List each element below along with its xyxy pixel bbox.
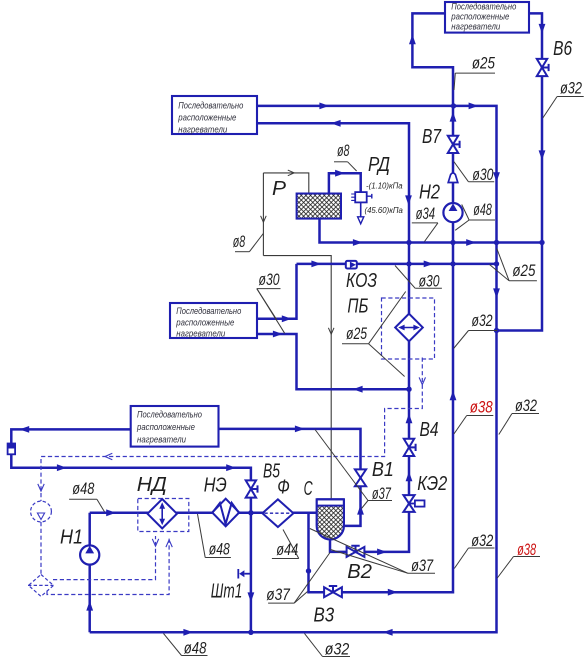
node trunk A x ø30 return <box>406 387 411 392</box>
shelf ø8 upper <box>334 161 348 163</box>
РД drain open triangle <box>358 217 364 224</box>
arrow right main ø34 line 2 <box>466 239 476 246</box>
leader ø48 bottom <box>164 634 182 656</box>
leader ø34 <box>425 223 438 242</box>
svg-text:Шт1: Шт1 <box>211 579 243 602</box>
svg-text:С: С <box>304 477 313 500</box>
svg-text:ø30: ø30 <box>419 272 440 290</box>
arrow right В5 run 2 <box>226 464 236 471</box>
node trunk A x КОЗ line <box>406 261 411 266</box>
shelf ø32 trunk C <box>512 413 539 415</box>
svg-text:ø8: ø8 <box>337 142 350 160</box>
shelf ø48 pump <box>69 498 97 500</box>
svg-text:расположенные: расположенные <box>136 422 195 432</box>
arrow up trunk A at КЭ2 <box>406 472 413 482</box>
svg-text:ø48: ø48 <box>72 480 94 498</box>
svg-text:Н2: Н2 <box>419 181 440 204</box>
svg-text:расположенные: расположенные <box>450 11 509 21</box>
filter Ф diamond <box>262 499 293 527</box>
wire: dashed standby return from ПБ box <box>41 358 422 502</box>
leader ø37 В3 a <box>294 592 307 604</box>
leader ø38 red upper <box>454 416 467 435</box>
wire: thin line, tank Р top pipe <box>263 173 308 194</box>
svg-text:нагреватели: нагреватели <box>176 329 225 339</box>
arrow right РД pipe <box>335 170 345 177</box>
wire: heater box A outlet down to В6 and to junction with right trunk <box>497 13 543 330</box>
wire: main horizontal line ø34 <box>320 219 543 243</box>
svg-text:-(1.10)кПа: -(1.10)кПа <box>366 182 403 191</box>
open arrow to standby pump <box>38 484 44 491</box>
svg-text:ø48: ø48 <box>473 201 492 219</box>
wire: heater box B lower pipe becoming main trunk A <box>257 123 409 313</box>
node trunk C x В6 line <box>494 328 499 333</box>
shelf ø32 mid <box>469 547 495 549</box>
node on В3 branch <box>306 568 311 573</box>
reducer cone above Н2 <box>448 173 458 183</box>
wire: pump Н1 riser <box>88 513 91 633</box>
svg-text:РД: РД <box>368 153 390 176</box>
separator С vessel <box>317 499 344 539</box>
arrow left box B lower <box>331 120 341 127</box>
shelf ø25 right <box>509 280 537 282</box>
wire: РД drain stub <box>360 202 362 216</box>
node box B upper / box A riser <box>451 103 456 108</box>
svg-text:НЭ: НЭ <box>204 474 227 497</box>
arrow down Шт1 drain <box>248 592 255 602</box>
svg-text:расположенные: расположенные <box>175 318 234 328</box>
shelf ø32 bottom <box>323 656 351 658</box>
svg-text:В3: В3 <box>314 604 335 627</box>
shelf ø30 КОЗ <box>415 287 442 289</box>
svg-text:ø48: ø48 <box>184 640 207 658</box>
shelf ø8 lower <box>235 251 249 253</box>
svg-text:нагреватели: нагреватели <box>178 124 227 134</box>
svg-text:В6: В6 <box>553 37 572 60</box>
leader ø48 pump <box>97 499 105 512</box>
valve В2 <box>347 546 365 557</box>
leader ø48 Н2b <box>455 220 469 230</box>
arrow on box D outlet <box>295 426 305 433</box>
leader ø30 КОЗ <box>395 266 415 289</box>
leader ø30 box C lower <box>257 289 285 334</box>
heater (hatched) of regulator Р <box>297 194 341 219</box>
svg-text:ø32: ø32 <box>560 80 582 98</box>
leader ø32 bottom <box>305 634 323 657</box>
svg-text:ø32: ø32 <box>471 532 493 550</box>
leader ø25 ПБ down <box>369 344 405 377</box>
arrow right КОЗ line 2 <box>424 261 434 268</box>
valve В1 <box>355 469 366 486</box>
arrow down trunk C mid <box>493 288 500 298</box>
node В5 x main line <box>248 510 253 515</box>
arrow bottom line right part <box>383 629 393 636</box>
shelf ø32 В6 <box>557 96 584 98</box>
arrow right box B upper <box>319 103 329 110</box>
leader ø25 ПБ up <box>369 292 406 344</box>
node trunk C x КОЗ line <box>494 261 499 266</box>
wire: thin line, tank Р bottom run to separator С <box>263 256 331 500</box>
node trunk A x main <box>406 240 411 245</box>
node Шт1 x bottom line <box>248 630 253 635</box>
shelf ø38 red upper <box>467 415 494 417</box>
shelf ø34 <box>412 222 438 224</box>
wire: thin line, tank Р left drop <box>262 173 264 256</box>
arrow left ø30 return <box>353 386 363 393</box>
shelf ø48 НЭ <box>205 557 231 559</box>
leader ø25 right b <box>490 265 510 281</box>
svg-text:Последовательно: Последовательно <box>178 101 243 111</box>
wire: dashed bypass lower to НД <box>47 538 169 595</box>
svg-text:ø37: ø37 <box>266 586 290 604</box>
leader ø48 Н2a <box>462 205 469 221</box>
arrow on Р top pipe <box>288 170 294 176</box>
standby filter dashed diamond <box>28 575 54 597</box>
НД dashed enclosure <box>138 499 189 532</box>
svg-text:ø37: ø37 <box>372 485 392 503</box>
svg-text:ø32: ø32 <box>325 641 349 659</box>
wire: heater box D outlet left loop to В5 <box>11 429 251 512</box>
wire: pump Н1 discharge main line to separator С <box>90 512 317 515</box>
svg-text:ø37: ø37 <box>411 557 434 575</box>
wire: heater box B upper pipe / branch to right trunk <box>90 106 497 632</box>
svg-text:ø38: ø38 <box>470 398 493 416</box>
svg-text:КОЗ: КОЗ <box>346 269 377 292</box>
arrow down trunk A upper <box>405 195 412 205</box>
leader ø48 НЭ <box>198 514 206 558</box>
valve В5 <box>246 480 258 497</box>
arrow right В5 run <box>57 464 67 471</box>
shelf ø44 <box>272 558 299 560</box>
leader ø8 lower <box>249 234 263 252</box>
svg-text:НД: НД <box>137 473 167 496</box>
leader ø37 В1 long <box>315 430 368 501</box>
arrow right main ø34 line <box>353 239 363 246</box>
leader ø30 Н2 <box>454 162 469 182</box>
svg-text:ПБ: ПБ <box>347 295 368 318</box>
shelf ø25 ПБ <box>342 343 369 345</box>
svg-text:КЭ2: КЭ2 <box>417 472 447 495</box>
arrow right branch to trunk C <box>469 103 479 110</box>
open arrow on dashed return run <box>105 453 112 459</box>
leader ø32 mid <box>454 548 468 569</box>
leader ø32 trunk C <box>499 414 512 435</box>
shelf ø38 red lower <box>514 556 541 558</box>
arrow bottom line left part <box>183 629 193 636</box>
shelf ø37 В1 <box>368 500 392 502</box>
svg-text:ø8: ø8 <box>233 233 246 251</box>
valve В3 <box>324 586 342 597</box>
leader ø37 right a <box>310 529 408 574</box>
leader ø37 right b <box>331 550 409 574</box>
heat exchanger НЭ diamond <box>212 499 239 527</box>
wire: Шт1 drain line <box>250 513 253 633</box>
leader ø38 red lower <box>497 557 513 579</box>
arrow up В1 riser <box>357 505 364 515</box>
svg-text:ø25: ø25 <box>472 55 496 73</box>
leader ø32 В6 <box>543 97 557 119</box>
check valve on left loop <box>8 444 16 455</box>
svg-text:В7: В7 <box>422 125 442 148</box>
svg-text:Последовательно: Последовательно <box>137 410 202 420</box>
arrow up trunk A at В4 <box>406 413 413 423</box>
arrow right pump discharge <box>106 509 116 516</box>
pressure regulator НД diamond <box>148 499 177 528</box>
arrow up pump Н1 suction <box>86 601 93 611</box>
wire: feed to heater box A (left riser) <box>412 13 453 136</box>
arrow right box C upper <box>282 315 292 322</box>
wire: separator С outlet to В1 riser and heater box D <box>219 429 361 526</box>
wire: heater box C lower pipe down to ø30 return <box>257 334 409 389</box>
leader ø30 box C upper <box>257 289 277 320</box>
leader ø8 upper <box>348 162 357 171</box>
svg-text:Р: Р <box>272 177 286 200</box>
arrow right box C lower <box>273 331 283 338</box>
shelf ø48 Н2 <box>469 219 495 221</box>
valve В6 <box>537 59 549 76</box>
heater box C <box>170 303 257 339</box>
arrow up to box A <box>409 35 416 45</box>
valve В7 <box>448 136 460 153</box>
leader ø37 В1 short <box>362 501 369 509</box>
leader ø37 В3 b <box>294 553 330 604</box>
drain fitting Шт1 <box>238 569 251 579</box>
svg-text:ø38: ø38 <box>517 541 536 559</box>
svg-text:ø44: ø44 <box>276 541 298 559</box>
heater box D <box>131 406 219 447</box>
heater box A <box>445 1 529 32</box>
arrow right В2 line <box>377 549 387 556</box>
svg-text:Н1: Н1 <box>60 526 83 549</box>
shelf ø37 right <box>408 572 435 574</box>
node trunk B x КОЗ line <box>450 261 455 266</box>
leader ø32 trunk B <box>454 331 469 349</box>
ПБ dashed enclosure <box>382 298 435 359</box>
arrow down В6 line <box>539 150 546 160</box>
svg-text:ø32: ø32 <box>472 312 493 330</box>
standby pump dashed circle <box>31 501 52 522</box>
svg-text:Ф: Ф <box>277 475 290 498</box>
shelf ø37 В3 <box>268 602 294 604</box>
arrow down from box A <box>539 24 546 34</box>
valve В4 <box>404 439 416 456</box>
svg-text:нагреватели: нагреватели <box>137 434 186 444</box>
solenoid valve КЭ2 <box>403 495 424 512</box>
open arrow on dashed return <box>419 377 425 384</box>
svg-text:В2: В2 <box>347 560 372 583</box>
wire: dashed bypass upper to НД <box>53 536 156 580</box>
wire: trunk B from В7 through Н2 down to В3 line <box>309 153 454 592</box>
wire: dashed line pump to diamond <box>40 522 42 575</box>
check valve КОЗ <box>346 261 357 269</box>
svg-text:ø32: ø32 <box>515 397 537 415</box>
heater box B <box>172 96 257 134</box>
svg-text:ø34: ø34 <box>416 205 436 223</box>
arrow down trunk C upper <box>493 172 500 182</box>
svg-text:Последовательно: Последовательно <box>176 306 241 316</box>
pump Н1 <box>80 545 99 564</box>
leader ø25 top <box>454 73 455 90</box>
open arrow into НД bypass <box>152 539 158 546</box>
leader ø25 right a <box>497 249 509 281</box>
svg-text:расположенные: расположенные <box>177 113 236 123</box>
shelf ø48 bottom <box>182 655 208 657</box>
arrow up to В7 <box>450 112 457 122</box>
node В6 line x main <box>539 240 544 245</box>
svg-text:В4: В4 <box>420 418 439 441</box>
svg-text:(45.60)кПа: (45.60)кПа <box>365 206 404 215</box>
leader ø44 <box>283 530 299 559</box>
pump Н2 <box>443 203 462 222</box>
arrow up trunk B <box>450 391 457 401</box>
svg-text:ø48: ø48 <box>209 541 230 559</box>
svg-text:Последовательно: Последовательно <box>451 1 516 11</box>
svg-text:ø30: ø30 <box>259 271 280 289</box>
svg-text:ø25: ø25 <box>512 262 536 280</box>
shelf ø32 trunk B <box>469 330 498 332</box>
wire: trunk A between ПБ and В2 line, drain to separator <box>330 341 409 552</box>
svg-text:ø25: ø25 <box>346 325 368 343</box>
shelf ø25 top <box>455 72 495 74</box>
wire: КОЗ line ø30 <box>297 263 497 266</box>
arrow left box D inlet <box>19 426 29 433</box>
wire: riser to heater box C upper pipe <box>257 264 297 319</box>
arrow on line to С <box>328 328 334 334</box>
arrow right В3 line <box>388 589 398 596</box>
safety valve ПБ diamond <box>395 314 423 342</box>
wire: РД sensing pipe ø8 <box>329 173 361 193</box>
node trunk C x main <box>494 240 499 245</box>
shelf ø30 Н2 <box>468 181 494 183</box>
svg-text:ø30: ø30 <box>472 166 493 184</box>
regulator РД body <box>351 192 372 202</box>
arrow on Р left drop <box>261 216 267 222</box>
shelf ø30 box C <box>257 288 281 290</box>
arrow right КОЗ line <box>311 261 321 268</box>
svg-text:нагреватели: нагреватели <box>451 21 500 31</box>
open arrow out of НД bypass <box>166 540 172 547</box>
svg-text:В1: В1 <box>372 458 394 481</box>
node trunk B x main <box>450 240 455 245</box>
